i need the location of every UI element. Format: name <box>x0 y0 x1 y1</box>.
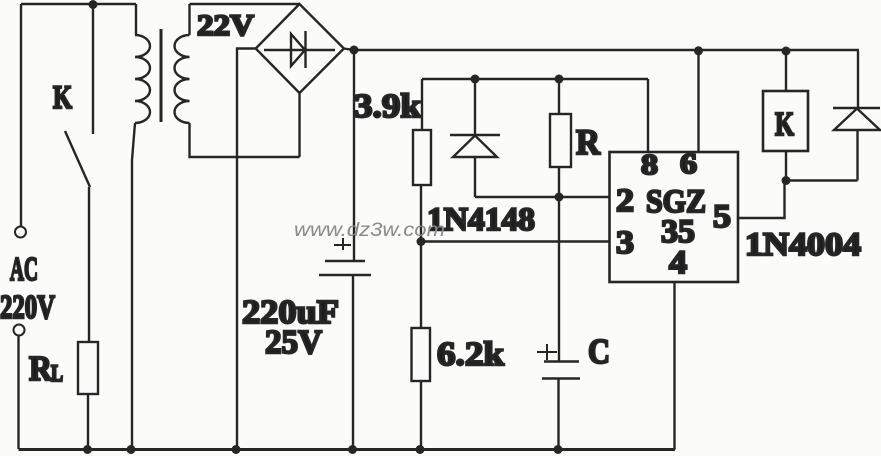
diode 1N4004 <box>833 108 880 130</box>
svg-text:4: 4 <box>669 245 687 281</box>
wire 3.9k riser <box>421 79 423 130</box>
pin 8 <box>641 149 658 181</box>
terminal AC lower <box>14 325 25 336</box>
svg-text:6.2k: 6.2k <box>437 336 504 373</box>
svg-text:22V: 22V <box>197 9 254 42</box>
svg-text:2: 2 <box>616 183 634 219</box>
capacitor 220uF <box>319 261 371 275</box>
svg-text:www.dz3w.com: www.dz3w.com <box>294 220 445 241</box>
label R <box>576 122 601 162</box>
svg-text:AC: AC <box>10 251 38 288</box>
node pin3 <box>417 237 426 246</box>
capacitor C polarity plus <box>537 344 557 360</box>
node C bus <box>554 445 563 454</box>
svg-text:R: R <box>576 122 601 162</box>
svg-text:25V: 25V <box>265 324 322 361</box>
resistor 6.2k <box>412 328 431 381</box>
wire RL to bus <box>87 394 89 449</box>
capacitor C <box>542 362 580 379</box>
node relay bottom <box>782 176 791 185</box>
label 22V <box>197 9 254 42</box>
wire left AC line <box>20 4 22 226</box>
wire switch to RL <box>88 187 90 342</box>
transformer primary winding <box>135 35 150 123</box>
resistor RL <box>78 342 98 394</box>
node primary bus <box>127 445 136 454</box>
bridge diode symbol <box>264 31 335 68</box>
wire secondary top rail <box>190 4 300 35</box>
capacitor 220uF polarity plus <box>334 238 351 250</box>
resistor R <box>550 114 571 167</box>
svg-text:220V: 220V <box>0 289 55 326</box>
node junction top-left <box>89 0 98 9</box>
wire primary top <box>135 4 137 35</box>
wire R bottom to C <box>558 167 560 361</box>
node RL bus <box>83 445 92 454</box>
wire pin8 riser <box>647 79 649 152</box>
svg-text:8: 8 <box>641 149 658 181</box>
label SGZ <box>646 184 706 220</box>
wire bridge negative output <box>237 49 256 450</box>
node pin6 rail <box>694 46 703 55</box>
wire left lower <box>17 336 19 449</box>
node bridge neg bus <box>232 445 241 454</box>
node relay rail <box>782 47 791 56</box>
svg-text:3.9k: 3.9k <box>354 88 421 125</box>
node 6.2k bus <box>416 445 425 454</box>
label AC <box>10 251 38 288</box>
svg-text:5: 5 <box>713 199 731 235</box>
svg-text:1N4004: 1N4004 <box>745 227 861 263</box>
transformer secondary winding <box>175 35 190 123</box>
wire pin2 line <box>475 196 609 198</box>
label 220V <box>0 289 55 326</box>
wire mid rail <box>422 78 648 80</box>
label K switch <box>53 80 72 116</box>
watermark <box>294 220 445 241</box>
pin 2 <box>616 183 634 219</box>
wire pin5 <box>738 181 785 219</box>
wire positive rail <box>344 49 859 51</box>
wire pin4 to bus <box>673 282 675 450</box>
svg-text:C: C <box>588 332 610 371</box>
wire pin3 line <box>421 240 609 242</box>
svg-text:6: 6 <box>680 148 697 180</box>
svg-text:R: R <box>29 349 53 388</box>
label 1N4148 <box>427 202 535 238</box>
wire bottom bus <box>19 448 676 451</box>
svg-text:3: 3 <box>616 225 634 261</box>
diode 1N4148 <box>450 135 500 157</box>
label 6.2k <box>437 336 504 373</box>
wire 220uF to bus <box>352 275 354 449</box>
wire R riser <box>558 79 560 114</box>
wire diode cathode riser <box>858 51 859 108</box>
wire relay riser <box>785 51 787 91</box>
node R rail <box>555 75 564 84</box>
pin 6 <box>680 148 697 180</box>
wire top-left rail <box>21 3 136 5</box>
label 1N4004 <box>745 227 861 263</box>
pin 4 <box>669 245 687 281</box>
label 3.9k <box>354 88 421 125</box>
wire 6.2k upper lead <box>420 242 422 329</box>
label 220uF <box>242 294 339 331</box>
wire C to bus <box>557 379 559 450</box>
pin 5 <box>713 199 731 235</box>
label 35 <box>661 214 695 250</box>
label 25V <box>265 324 322 361</box>
wire secondary bottom <box>190 123 300 157</box>
relay coil K <box>763 91 808 151</box>
terminal AC upper <box>15 227 26 238</box>
wire diode anode riser <box>856 130 858 181</box>
wire 220uF riser <box>353 50 355 261</box>
node positive rail cap <box>350 46 359 55</box>
transformer core <box>160 29 163 122</box>
wire 1N4148 riser <box>474 79 476 135</box>
IC SGZ35 box <box>610 152 739 282</box>
svg-text:K: K <box>775 106 794 143</box>
node R bottom <box>555 193 564 202</box>
wire pin6 riser <box>697 51 699 152</box>
wire bridge bottom vertex <box>298 93 300 157</box>
wire primary bottom to bus <box>132 123 135 449</box>
resistor 3.9k <box>413 130 431 185</box>
wire 1N4148 anode <box>474 157 476 197</box>
svg-text:L: L <box>51 361 63 386</box>
switch K blade <box>65 131 90 187</box>
wire relay to diode anode <box>786 179 858 181</box>
label K relay <box>775 106 794 143</box>
wire 3.9k to pin3 node <box>420 185 422 242</box>
pin 3 <box>616 225 634 261</box>
label C <box>588 332 610 371</box>
wire 6.2k to bus <box>420 381 422 449</box>
svg-text:K: K <box>53 80 72 116</box>
label RL <box>29 349 63 388</box>
bridge rectifier diamond <box>256 4 344 93</box>
node 1N4148 rail <box>471 75 480 84</box>
wire relay bottom <box>785 151 787 181</box>
node 220uF bus <box>348 445 357 454</box>
wire switch branch upper <box>92 4 94 134</box>
